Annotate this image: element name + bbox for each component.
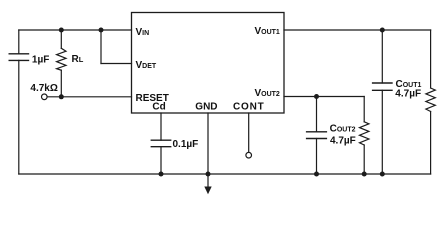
node junction bottom / COUT2: [314, 172, 319, 177]
ground symbol arrowhead: [204, 187, 211, 195]
svg-text:4.7kΩ: 4.7kΩ: [30, 83, 57, 94]
capacitor 1uF: [9, 54, 28, 61]
wire resistor VOUT2 top lead: [363, 97, 365, 122]
capacitor Cd 0.1uF: [151, 140, 170, 147]
terminal RESET output (open circle): [42, 94, 48, 100]
wire resistor VOUT2 bottom lead: [363, 145, 365, 174]
wire right branch upper lead: [430, 30, 432, 88]
wire Cd cap bottom lead: [160, 147, 162, 174]
wire COUT1 bottom lead: [381, 90, 383, 174]
svg-text:Cd: Cd: [152, 102, 165, 113]
wire VDET branch vertical: [100, 30, 102, 64]
wire RESET: [47, 96, 131, 98]
svg-text:0.1µF: 0.1µF: [173, 139, 199, 150]
node junction top rail / VDET: [99, 28, 104, 33]
wire VDET stub: [101, 63, 132, 65]
ground symbol arrow shaft: [207, 174, 209, 188]
svg-text:RL: RL: [72, 54, 84, 65]
op-amp U1 (voltage regulator IC block): [132, 13, 285, 114]
resistor R load on VOUT2: [360, 122, 369, 145]
wire VOUT1 rail: [284, 29, 431, 31]
capacitor COUT1 4.7uF: [373, 83, 392, 90]
terminal CONT input (open circle): [246, 152, 252, 158]
wire RL top lead: [60, 30, 62, 48]
wire RL bottom lead: [60, 70, 62, 97]
node junction bottom / Cd: [159, 172, 164, 177]
svg-text:4.7µF: 4.7µF: [330, 135, 356, 146]
node junction RESET / RL: [59, 94, 64, 99]
wire VIN top rail: [19, 29, 132, 31]
node junction bottom / GND: [206, 172, 211, 177]
wire COUT1 top lead: [381, 30, 383, 83]
node junction top rail / RL: [59, 28, 64, 33]
svg-text:1µF: 1µF: [32, 54, 49, 65]
wire left branch upper (input cap top lead): [18, 30, 20, 54]
resistor RL: [57, 48, 66, 70]
node junction bottom / R VOUT2: [362, 172, 367, 177]
wire COUT2 bottom lead: [316, 139, 318, 175]
wire GND pin lead: [207, 113, 209, 174]
svg-text:4.7µF: 4.7µF: [395, 89, 421, 100]
wire VOUT2 rail: [284, 96, 364, 98]
wire COUT2 top lead: [316, 97, 318, 132]
node junction bottom / COUT1: [380, 172, 385, 177]
wire bottom ground rail: [19, 173, 431, 175]
wire Cd pin lead: [160, 113, 162, 140]
wire left branch lower: [18, 60, 20, 174]
node junction VOUT2 / COUT2: [314, 94, 319, 99]
resistor R right (load on VOUT1): [426, 88, 435, 112]
capacitor COUT2 4.7uF: [307, 132, 327, 139]
wire right branch lower lead: [430, 112, 432, 175]
svg-text:GND: GND: [195, 102, 217, 113]
wire CONT pin lead: [248, 113, 250, 152]
svg-text:CONT: CONT: [233, 102, 265, 113]
node junction VOUT1 / COUT1: [380, 28, 385, 33]
